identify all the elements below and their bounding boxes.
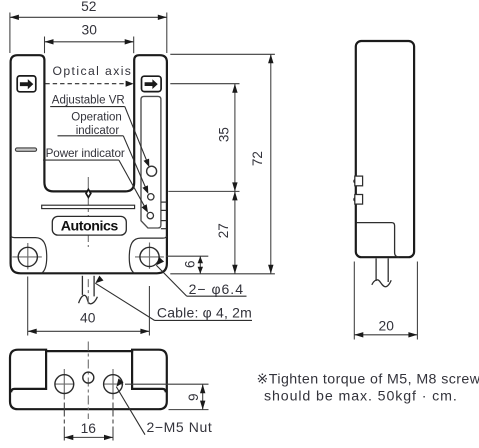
front view sensor body outline with U-slot [11,55,167,273]
side view inner step [356,223,399,258]
dimension 72 [270,54,272,273]
front center line [87,177,89,189]
side view bumps [353,179,355,183]
dimension 40 extension lines [27,277,29,336]
svg-text:52: 52 [81,0,96,14]
right mounting hole crosshair [135,256,164,258]
dimension 40 [28,330,150,332]
svg-text:6: 6 [182,261,197,269]
svg-text:2−M5 Nut: 2−M5 Nut [147,419,213,435]
dimension 16 [64,436,113,438]
dimension 52 extension lines [9,13,11,54]
svg-text:Adjustable VR: Adjustable VR [52,95,125,107]
left emitter arrow glyph [20,79,33,89]
dimension 20 extension lines [353,262,355,340]
side view lower square [355,195,363,205]
dimension 16 extension lines [63,403,65,442]
left M5 nut hole [55,375,74,394]
front view inner contour left boss [11,236,47,273]
bottom view outline [10,350,167,410]
right receiver arrow glyph [145,79,158,89]
left mounting hole crosshair [12,256,42,258]
svg-text:16: 16 [81,421,97,436]
operation indicator leader [58,135,124,137]
adjustable VR leader [50,106,125,108]
front groove bar [42,205,135,208]
svg-text:indicator: indicator [76,125,120,137]
svg-text:Cable: φ 4, 2m: Cable: φ 4, 2m [157,305,252,321]
dimension 20 [354,334,417,336]
right nut crosshair [103,383,123,385]
right edge step lines [161,201,167,203]
dimension 9 extension lines [125,383,209,385]
right prong receiver arrow icon box [142,76,162,91]
extension line slot bottom right [168,190,239,192]
Autonics logo box [52,216,126,235]
side view upper square [355,176,363,186]
side view body outline [356,41,414,257]
label 2-M5 Nut leader [116,379,123,387]
left prong sensitivity slot [15,148,36,151]
left nut crosshair [55,383,75,385]
slot bottom center diamond [86,189,91,197]
svg-text:40: 40 [80,310,96,325]
extension line optical axis right [170,83,239,85]
svg-text:72: 72 [250,151,265,166]
label 2-phi6.4 leader [156,257,164,265]
label cable leader [95,276,103,284]
extension line body bottom right [170,273,275,275]
left mounting hole [18,247,37,266]
bottom center line [87,342,89,420]
svg-text:35: 35 [216,127,231,142]
extension line hole center right [166,255,208,257]
svg-text:※Tighten torque of M5, M8 scre: ※Tighten torque of M5, M8 screw [257,372,479,388]
svg-text:20: 20 [379,318,395,333]
svg-text:30: 30 [82,23,98,38]
dimension 6 [199,256,201,274]
dimension 35 [234,84,236,192]
svg-text:27: 27 [216,223,231,238]
svg-text:should be max. 50kgf · cm.: should be max. 50kgf · cm. [264,389,458,405]
left prong emitter arrow icon box [17,76,36,92]
bottom view left block step [11,351,46,392]
operation indicator circle [148,194,154,200]
optical axis dashed line [45,83,127,85]
adjustable VR circle [147,166,157,176]
front view inner contour right boss [129,236,166,273]
dimension 30 [45,41,134,43]
bottom view right block step [132,351,166,392]
svg-text:Optical axis: Optical axis [53,64,133,78]
right M5 nut hole [104,375,123,394]
power indicator leader [43,159,119,161]
svg-text:Power indicator: Power indicator [46,147,125,160]
svg-text:Operation: Operation [71,112,122,124]
svg-text:9: 9 [186,394,201,402]
svg-text:2− φ6.4: 2− φ6.4 [189,281,244,297]
dimension 9 [202,384,204,409]
dimension 30 extension lines [44,37,46,54]
dimension 27 [234,191,236,273]
right prong indicator window [141,96,161,228]
dimension 52 [10,16,167,18]
right mounting hole [140,247,159,266]
extension line top right [170,53,275,55]
power indicator circle [147,212,153,218]
side cable [375,258,377,281]
center hole [83,372,94,383]
front cable [81,276,83,295]
svg-text:Autonics: Autonics [61,219,119,235]
